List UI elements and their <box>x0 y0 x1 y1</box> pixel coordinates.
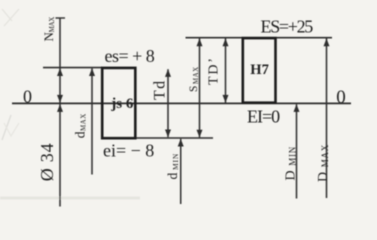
scan scratch top-left <box>2 9 19 26</box>
svg-text:EI=0: EI=0 <box>247 106 280 126</box>
svg-text:ES=+25: ES=+25 <box>261 17 314 37</box>
Dmin arrow up at zero <box>294 104 300 112</box>
Dmax arrow up at ES <box>324 39 330 47</box>
Td dimension line <box>167 69 169 137</box>
svg-text:es= + 8: es= + 8 <box>105 46 155 66</box>
TD' dimension line <box>225 39 227 103</box>
svg-text:H7: H7 <box>250 62 269 78</box>
ei level extension line <box>135 137 213 139</box>
Nmax arrow down at zero <box>57 95 63 103</box>
Smax arrow down at ei <box>197 130 203 138</box>
tolerance zone js6 <box>102 68 135 138</box>
scan scratch left-bottom V <box>4 123 19 136</box>
svg-text:0: 0 <box>23 87 32 107</box>
Smax arrow up at ES <box>197 39 203 47</box>
dmax dimension line <box>91 68 93 174</box>
ES level line <box>186 37 333 39</box>
zero line <box>12 102 351 104</box>
Td arrow down <box>165 130 171 138</box>
es level line <box>43 67 102 69</box>
svg-text:0: 0 <box>336 87 346 108</box>
TD' arrow up at ES <box>223 39 229 47</box>
Nmax extension-and-diameter line <box>56 18 66 207</box>
TD' arrow down at zero <box>223 95 229 103</box>
scan streak left diagonal <box>2 115 11 140</box>
svg-text:js 6: js 6 <box>110 96 134 112</box>
Td arrow up <box>165 69 171 77</box>
Dmin dimension line <box>296 104 298 198</box>
Smax dimension line <box>199 39 201 138</box>
dmin dimension line <box>180 139 182 204</box>
tolerance zone H7 <box>243 38 276 103</box>
Dmax dimension line <box>326 39 328 199</box>
dmax arrow up at es <box>89 68 95 76</box>
Nmax arrow up at es <box>57 68 63 76</box>
diameter 34 arrow up at zero <box>57 104 63 112</box>
scan streak bottom <box>0 197 140 200</box>
svg-text:Td: Td <box>152 79 169 100</box>
svg-text:ei= − 8: ei= − 8 <box>103 141 154 161</box>
dmin arrow up at ei <box>178 139 184 147</box>
svg-text:Ø 34: Ø 34 <box>37 143 57 182</box>
svg-text:TD’: TD’ <box>207 56 222 85</box>
